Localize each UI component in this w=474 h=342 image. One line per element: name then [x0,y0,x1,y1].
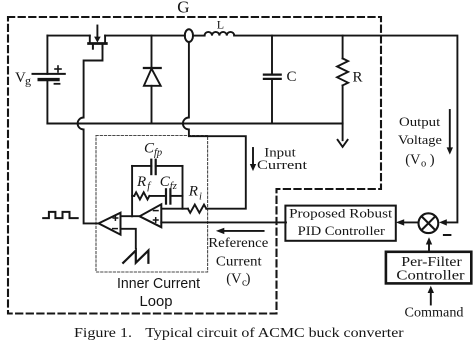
Vg label [15,70,31,88]
wire: Vg top leg [46,36,48,124]
wire: Ri to op-amp inverting input [161,208,188,210]
per-filter controller box [386,252,471,284]
source Vg battery [33,66,65,84]
svg-text:R: R [188,184,198,200]
PWM square wave symbol [43,212,77,218]
current sensor [185,29,193,42]
wire: bottom return rail [47,123,342,125]
wire: compensation tap [131,166,133,216]
minus sign at summing junction [444,234,451,236]
svg-text:PID Controller: PID Controller [298,223,386,238]
wire: top rail left segment [47,35,89,37]
sawtooth ramp symbol [123,251,148,263]
svg-text:C: C [287,69,297,85]
resistor Rf [132,192,149,199]
comparator U2 [99,213,121,235]
arrow: command into per-filter box [428,286,434,305]
Ri label [188,184,202,203]
svg-text:Proposed Robust: Proposed Robust [289,206,393,221]
svg-text:Voltage: Voltage [398,132,442,147]
wire: reference line PID to U1 plus input [161,221,286,223]
arrow: reference current annotation [216,228,264,234]
capacitor C [264,36,281,124]
svg-text:R: R [136,174,146,190]
transistor Q1 (switch) [89,26,107,49]
capacitor Cfz [149,189,182,203]
wire: top rail inductor to right corner and down [234,36,457,223]
svg-text:Figure 1.: Figure 1. [74,325,132,340]
svg-text:(V: (V [226,271,242,287]
svg-text:Reference: Reference [208,235,268,250]
dashed boundary box G [8,17,381,314]
svg-text:Current: Current [216,254,262,269]
svg-text:Command: Command [405,304,464,319]
capacitor Cfp branch [132,160,182,174]
svg-text:Inner Current: Inner Current [117,276,200,292]
wire: compensation right leg to inverting node [182,166,184,209]
svg-text:fz: fz [170,181,177,192]
dotted inner current loop box [96,136,208,273]
svg-text:o: o [421,158,426,169]
svg-text:fp: fp [154,147,162,158]
wire: top rail switch to sensor [105,35,185,37]
svg-text:): ) [246,271,251,287]
wire: sensor to inductor [193,35,205,37]
text Per-Filter Controller [396,254,465,283]
arrow: feedback into summing junction [439,219,447,225]
svg-text:(V: (V [405,152,421,168]
wire: current sense drop with hop and loop to Ri [183,42,246,209]
wire: gate line from comparator to switch [78,49,103,224]
svg-text:Typical circuit of ACMC buck c: Typical circuit of ACMC buck converter [145,325,404,340]
inductor L [205,32,235,36]
svg-text:i: i [199,191,202,202]
svg-text:Current: Current [257,157,307,172]
text Inner Current Loop [117,276,200,310]
op-amp U1 error amplifier [140,204,162,227]
resistor R [337,36,348,124]
wire: U1 output to comparator [121,215,140,217]
Cfz label [160,174,177,192]
summing junction (multiplier) [419,213,439,233]
svg-text:Controller: Controller [396,267,465,282]
svg-text:R: R [353,70,363,86]
svg-text:g: g [25,74,31,88]
Cfp label [144,140,162,158]
wire: comparator minus input to sawtooth [121,229,136,249]
svg-text:Output: Output [399,114,441,129]
PID controller box [285,206,395,241]
text Reference Current (Vc) [208,235,268,288]
svg-text:Loop: Loop [140,294,173,310]
arrow: summing junction to PID box [396,219,419,225]
arrow: per-filter to summing junction [426,237,432,252]
svg-text:L: L [217,18,224,32]
text Input Current + arrow [257,146,307,173]
text Proposed Robust PID Controller [289,206,393,239]
Rf label [136,174,152,192]
resistor Ri [188,205,206,213]
text Output Voltage (Vo) + arrow [398,114,442,169]
diode D1 [144,36,161,124]
arrow: rail end down arrow [338,124,348,147]
svg-text:): ) [430,152,435,168]
caption Figure 1 [74,325,404,340]
svg-text:G: G [177,0,189,16]
